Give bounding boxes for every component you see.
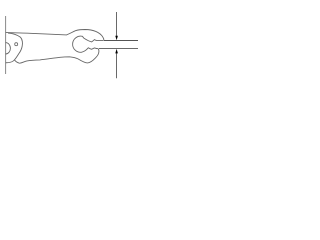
jaw mouth inner profile bbox=[73, 36, 104, 52]
handle top outline to top jaw tip bbox=[6, 30, 104, 41]
dimension line lower segment bbox=[116, 53, 118, 79]
arrowhead up bbox=[115, 49, 118, 54]
arrowhead down bbox=[115, 36, 118, 41]
extension line top (jaw tip) bbox=[104, 40, 138, 42]
bottom jaw lobe + handle bottom outline bbox=[15, 49, 99, 63]
dimension line upper segment bbox=[116, 12, 118, 37]
small hole circle bbox=[15, 43, 18, 46]
wrench head circular boss outline bbox=[6, 33, 23, 63]
extension line bottom (jaw tip) bbox=[99, 48, 138, 50]
plate edge vertical line bbox=[5, 16, 7, 74]
D-notch semicircle on edge bbox=[6, 43, 11, 54]
